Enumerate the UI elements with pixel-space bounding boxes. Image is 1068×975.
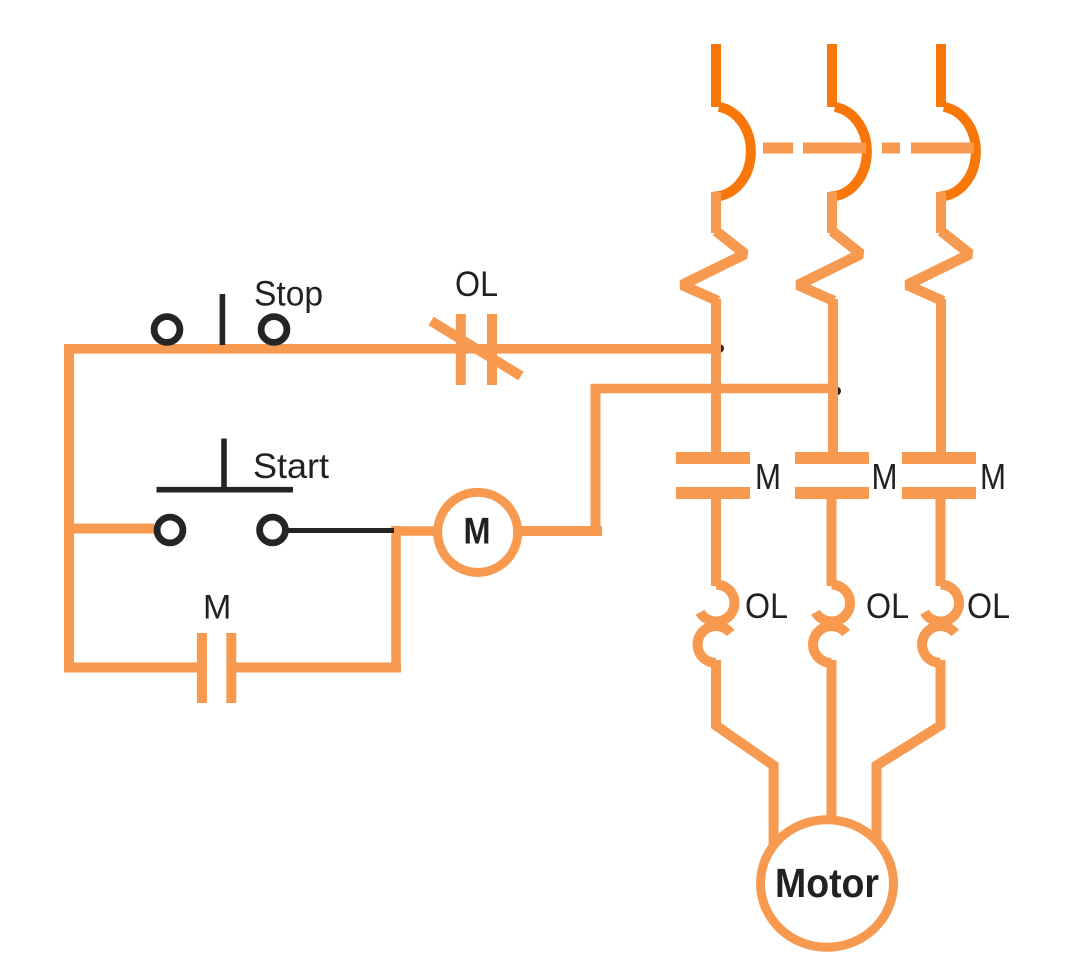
svg-text:Start: Start	[253, 447, 329, 486]
circuit breaker CB pole L2	[830, 107, 867, 197]
overload NC contact slash	[431, 321, 521, 376]
overload NC contact OL plate 1	[456, 314, 466, 385]
contactor contact M L1 top plate	[676, 452, 750, 464]
junction node rail2-L2	[832, 387, 841, 396]
wire L3 supply lead	[936, 44, 946, 107]
wire L1 to motor	[716, 660, 774, 846]
start button terminal circle left	[157, 517, 183, 543]
wire L3 zig to contact	[936, 299, 946, 452]
wire control left rail	[64, 345, 74, 673]
wire coil to corner	[518, 526, 602, 536]
breaker linkage dashed line	[763, 143, 974, 154]
motor	[761, 820, 894, 948]
contactor contact M L2 bottom plate	[795, 487, 869, 499]
wire L2 supply lead	[827, 44, 837, 107]
wire L1 contact to overload	[711, 499, 721, 586]
svg-text:M: M	[203, 589, 231, 627]
svg-text:OL: OL	[967, 587, 1010, 626]
wire L2 to motor	[827, 660, 837, 820]
wire L3 below breaker	[936, 192, 946, 233]
svg-text:M: M	[464, 511, 491, 552]
overload NC contact OL plate 2	[487, 314, 497, 385]
circuit breaker CB pole L3	[939, 107, 976, 197]
wire coil return rail to L2	[591, 384, 839, 394]
wire L1 zig to contact	[711, 299, 721, 452]
stop button plunger	[220, 294, 226, 345]
aux contact M plate 2	[226, 633, 236, 703]
overload heater OL L2	[816, 584, 851, 621]
contactor contact M L2 top plate	[795, 452, 869, 464]
wire L2 zig to contact	[828, 299, 838, 452]
wire L3 contact to overload	[936, 499, 946, 586]
stop button terminal circle right	[261, 317, 287, 343]
disconnect zigzag L1	[682, 231, 745, 301]
start button plunger	[221, 439, 227, 490]
svg-text:Stop: Stop	[254, 275, 323, 314]
wire start to node (black)	[288, 528, 394, 533]
coil M (contactor coil)	[438, 492, 518, 572]
junction node rail1-L1	[715, 344, 724, 353]
start button terminal circle right	[260, 517, 286, 543]
svg-text:Motor: Motor	[775, 860, 879, 906]
disconnect zigzag L2	[798, 231, 861, 301]
wire L3 to motor	[877, 660, 941, 846]
circuit breaker CB pole L1	[714, 107, 751, 197]
contactor contact M L3 top plate	[902, 452, 976, 464]
svg-text:OL: OL	[455, 265, 498, 304]
svg-text:OL: OL	[866, 587, 909, 626]
wire L1 supply lead	[711, 44, 721, 107]
svg-text:M: M	[755, 456, 781, 497]
wire bottom rail right segment	[236, 663, 401, 673]
wire branch to start button	[64, 524, 154, 534]
wire L2 contact to overload	[827, 499, 837, 586]
overload heater OL L1	[700, 584, 735, 621]
wire control top rail	[64, 344, 721, 354]
wire holding branch vertical	[391, 526, 401, 673]
wire bottom rail left segment	[64, 663, 197, 673]
aux contact M plate 1	[197, 633, 207, 703]
start button bar	[157, 487, 294, 493]
svg-text:M: M	[980, 456, 1006, 497]
contactor contact M L1 bottom plate	[676, 487, 750, 499]
svg-text:M: M	[872, 456, 898, 497]
disconnect zigzag L3	[907, 231, 970, 301]
wire L2 below breaker	[827, 192, 837, 233]
wire L1 below breaker	[711, 192, 721, 233]
stop button terminal circle left	[154, 317, 180, 343]
overload heater OL L3	[925, 584, 960, 621]
contactor contact M L3 bottom plate	[902, 487, 976, 499]
svg-text:OL: OL	[745, 587, 788, 626]
wire corner vertical	[591, 389, 601, 537]
wire branch to coil	[392, 526, 438, 536]
